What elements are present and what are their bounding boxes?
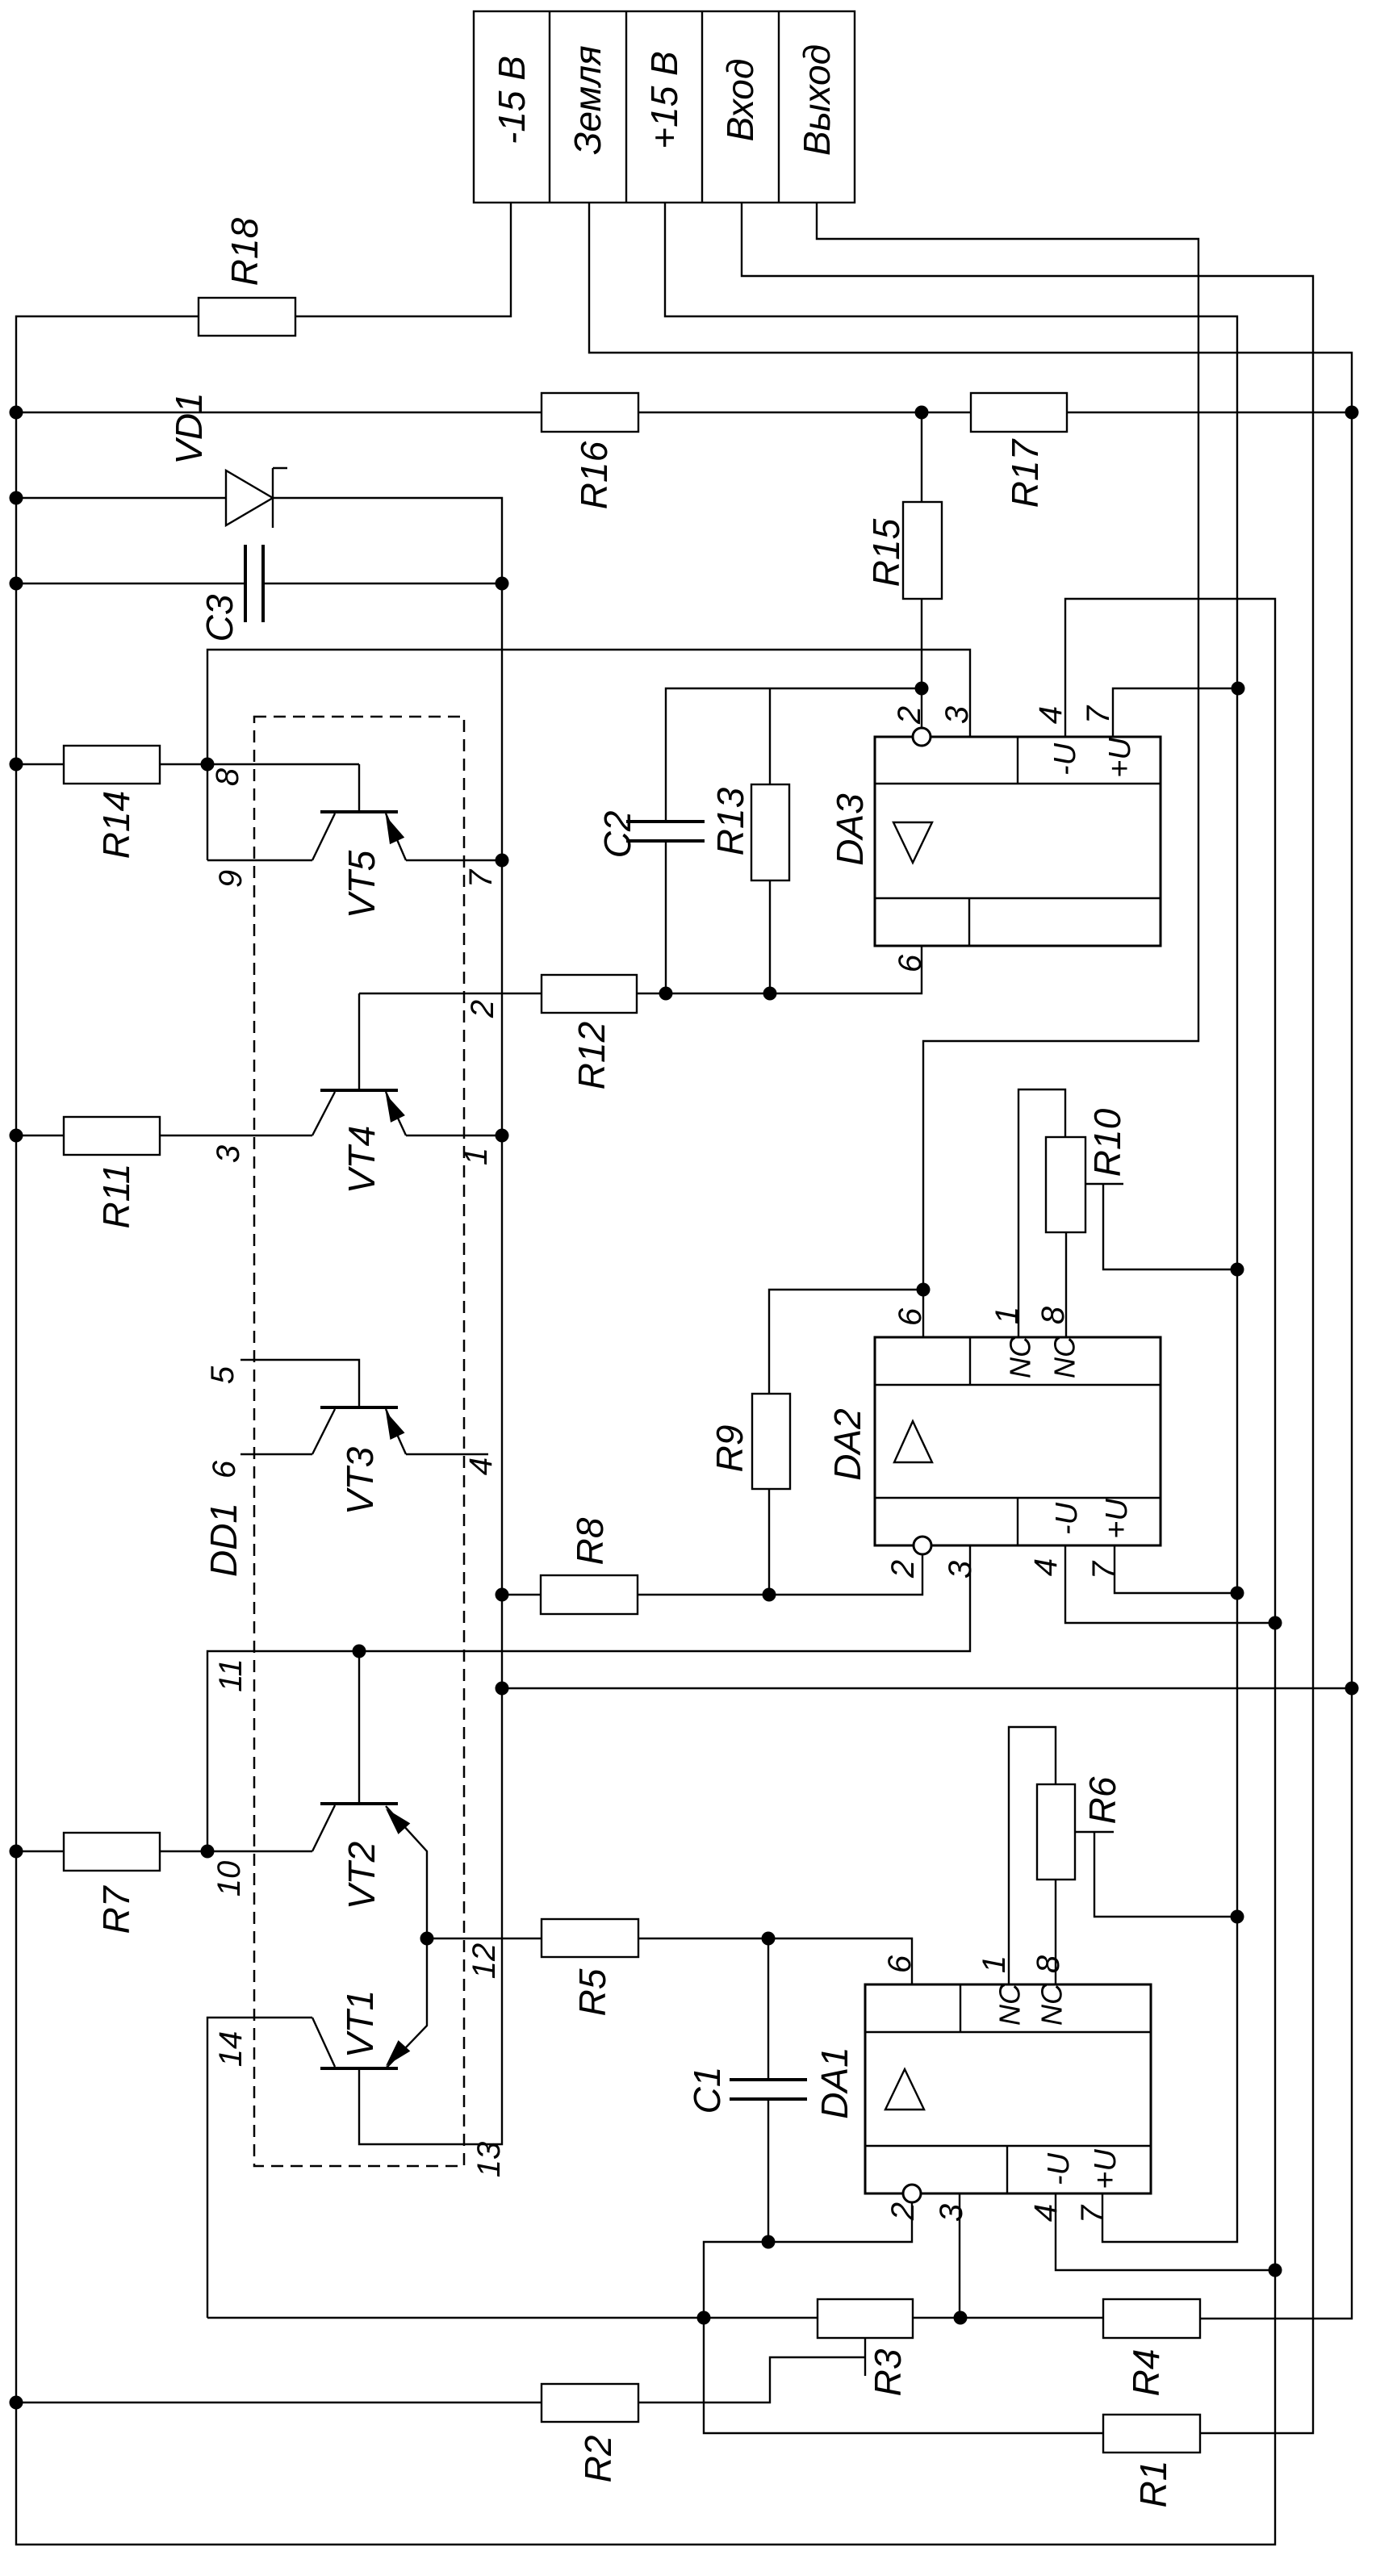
resistor R2 — [542, 2384, 638, 2422]
svg-text:R8: R8 — [569, 1517, 611, 1565]
DA3 top band line — [875, 783, 1161, 784]
capacitor C2 — [626, 820, 705, 823]
resistor R1 — [1103, 2415, 1200, 2453]
junction dot R1 branch/pin14 wire — [697, 2311, 711, 2325]
junction dot pin10/R7 — [201, 1845, 215, 1859]
wire R3 to R4 — [913, 2317, 1103, 2319]
op-amp DA1 box — [865, 1984, 1151, 2193]
svg-text:1: 1 — [458, 1148, 494, 1165]
resistor R12 — [542, 975, 637, 1013]
svg-text:7: 7 — [1086, 1560, 1122, 1579]
connector divider 3-4 — [701, 11, 703, 203]
svg-text:1: 1 — [977, 1955, 1012, 1973]
wire DD1 pin14 net to R3 — [207, 2317, 818, 2319]
svg-text:VD1: VD1 — [168, 392, 210, 464]
wire DA1 pin 2 to C1 bottom and R1 — [704, 2202, 1103, 2433]
svg-text:2: 2 — [885, 1560, 921, 1579]
IC DD1 dashed outline — [254, 717, 464, 2166]
wire R13 bottom — [769, 880, 771, 993]
svg-text:-15 В: -15 В — [491, 56, 533, 144]
wire DD1 pin 4 stub — [406, 1453, 488, 1455]
wire left rail to VD1 anode — [16, 497, 226, 499]
capacitor C1 — [730, 2078, 807, 2081]
junction dot VT2 base / pin 11 wire — [353, 1645, 366, 1658]
svg-text:-U: -U — [1050, 1502, 1084, 1535]
wire R2 to R3 wiper — [638, 2357, 865, 2402]
junction dot ground wire/ground rail — [1345, 1682, 1359, 1696]
svg-text:NC: NC — [993, 1983, 1027, 2026]
DA2 amplifier triangle — [894, 1421, 932, 1462]
svg-text:5: 5 — [205, 1365, 240, 1384]
connector divider 4-5 — [778, 11, 780, 203]
wire left rail to R14 to DD1 pin 8 and VT5 base — [16, 763, 64, 765]
DA1 top band divider — [960, 1984, 961, 2032]
junction dot R17/ground rail — [1345, 406, 1359, 420]
resistor R3 — [818, 2299, 913, 2338]
resistor R18 — [199, 298, 295, 336]
svg-text:+U: +U — [1103, 738, 1137, 778]
wire -15V lead from connector to R18 — [295, 203, 511, 316]
svg-text:10: 10 — [211, 1861, 247, 1897]
DA2 top band line — [875, 1384, 1161, 1386]
junction dot VT1/VT2 emitters — [420, 1932, 434, 1946]
svg-text:9: 9 — [213, 870, 249, 888]
svg-text:6: 6 — [207, 1460, 242, 1478]
wire +15V lead from connector, +15V rail down to DA1 pin 7 — [665, 203, 1237, 2242]
wire input lead from connector, input rail down to R1 — [742, 203, 1313, 2433]
svg-text:12: 12 — [466, 1943, 502, 1980]
svg-text:R11: R11 — [95, 1164, 137, 1229]
svg-text:DA1: DA1 — [813, 2047, 855, 2118]
svg-text:R17: R17 — [1004, 438, 1046, 508]
wire R15 vertical from R16/R17 node down to DA3 pin 2 node — [921, 412, 922, 502]
wire C1 bottom — [767, 2099, 769, 2242]
resistor R16 — [542, 393, 638, 432]
DA3 bottom band divider — [968, 898, 970, 946]
wire DA2 pin 4 to -U rail — [1065, 1545, 1275, 1623]
svg-text:R13: R13 — [709, 787, 751, 855]
svg-text:NC: NC — [1004, 1336, 1037, 1378]
svg-text:2: 2 — [892, 706, 927, 725]
svg-text:13: 13 — [471, 2142, 507, 2178]
wire common rail to R8 — [502, 1594, 541, 1595]
svg-text:4: 4 — [1033, 706, 1069, 724]
svg-text:3: 3 — [934, 2204, 969, 2222]
DA3 top band divider — [1017, 737, 1018, 784]
svg-text:DA3: DA3 — [829, 793, 871, 866]
svg-text:2: 2 — [885, 2202, 921, 2221]
junction dot R6 wiper/+15V rail — [1231, 1910, 1244, 1924]
svg-text:6: 6 — [893, 954, 928, 972]
resistor R11 — [64, 1117, 160, 1155]
svg-text:-U: -U — [1048, 742, 1082, 776]
R3 wiper tap — [864, 2338, 866, 2376]
svg-text:R5: R5 — [571, 1968, 613, 2016]
wire C1 top — [767, 1938, 769, 2080]
junction dot DA2 pin6/output — [917, 1283, 931, 1297]
svg-text:Выход: Выход — [796, 44, 838, 156]
svg-text:7: 7 — [463, 868, 499, 888]
wire DA2 pin 6 node to R9 top — [769, 1290, 923, 1394]
svg-text:R10: R10 — [1086, 1108, 1128, 1177]
DA1 amplifier triangle — [885, 2069, 924, 2110]
svg-text:6: 6 — [882, 1955, 918, 1973]
wire R9 bottom to DA2 pin2 wire — [768, 1489, 770, 1595]
svg-text:C1: C1 — [686, 2067, 728, 2114]
DA1 bottom band line — [865, 2145, 1151, 2147]
resistor R9 — [752, 1394, 790, 1489]
junction dot DA1 pin3/R3/R4 — [954, 2311, 968, 2325]
svg-text:+U: +U — [1089, 2149, 1123, 2189]
wire R10 bottom to DA2 pin 8 — [1065, 1232, 1067, 1337]
svg-text:NC: NC — [1035, 1983, 1069, 2026]
DA2 bottom band line — [875, 1497, 1161, 1499]
resistor R17 — [971, 393, 1067, 432]
op-amp DA2 box — [875, 1337, 1161, 1545]
svg-text:3: 3 — [943, 1561, 978, 1579]
svg-text:8: 8 — [210, 767, 245, 786]
svg-text:VT1: VT1 — [339, 1990, 381, 2058]
wire DA1 pin 4 to -U rail — [1056, 2193, 1275, 2270]
resistor R15 — [903, 502, 942, 599]
junction dot DA3 pin7/+15V rail — [1232, 682, 1245, 696]
svg-text:6: 6 — [893, 1307, 928, 1326]
DA3 pin 2 inverting circle — [913, 728, 931, 746]
junction dot DA2 pin7/+15V rail — [1231, 1587, 1244, 1600]
DA2 top band divider — [969, 1337, 971, 1385]
resistor R6 — [1037, 1784, 1075, 1880]
wire R8 to DA2 pin 2 — [638, 1554, 922, 1595]
svg-text:R2: R2 — [577, 2436, 619, 2483]
wire R12 to C2, R13, DA3 pin 6 — [637, 946, 922, 993]
wire DD1 pin 5 stub and VT3 base — [240, 1360, 359, 1407]
svg-text:4: 4 — [463, 1457, 499, 1475]
wire DD1 pin 9 lead — [207, 859, 312, 861]
DA1 pin 2 inverting circle — [903, 2185, 921, 2202]
svg-text:11: 11 — [213, 1658, 249, 1692]
wire output lead from connector, output rail down to DA2 pin 6 — [817, 203, 1198, 1337]
connector block X1 — [474, 11, 855, 203]
wire DA2 pin 1 up to R10 — [1018, 1089, 1065, 1337]
svg-text:R16: R16 — [573, 441, 615, 509]
svg-text:1: 1 — [989, 1307, 1025, 1324]
resistor R4 — [1103, 2299, 1200, 2338]
svg-text:2: 2 — [465, 1000, 500, 1018]
wire left rail to C3 — [16, 583, 245, 584]
resistor R8 — [541, 1575, 638, 1614]
svg-text:R18: R18 — [224, 217, 266, 286]
junction dots common rail — [496, 577, 509, 591]
junction dot R10 wiper/+15V rail — [1231, 1263, 1244, 1277]
op-amp DA3 box — [875, 737, 1161, 946]
transistor VT2 — [320, 1802, 398, 1805]
junction dot R15/C2/R13/DA3 pin2 — [915, 682, 929, 696]
svg-text:R6: R6 — [1081, 1776, 1123, 1824]
wire DA3 pin 7 to +15V rail — [1113, 688, 1238, 737]
wire R10 wiper to +15V rail — [1103, 1184, 1237, 1269]
svg-text:+15 В: +15 В — [643, 51, 685, 149]
wire DA2 pin 3 to DD1 pins 11/10 and R7 — [207, 1545, 970, 1851]
wire ground lead from connector, right ground rail down to R4 — [589, 203, 1352, 2319]
DA3 bottom band line — [875, 897, 1161, 899]
svg-text:NC: NC — [1048, 1336, 1081, 1378]
wire left rail to R2 — [16, 2402, 542, 2403]
wire R13 top — [769, 688, 771, 784]
svg-text:Земля: Земля — [567, 45, 609, 154]
svg-text:-U: -U — [1042, 2152, 1076, 2185]
DA1 top band line — [865, 2031, 1151, 2033]
svg-text:7: 7 — [1081, 705, 1116, 724]
wire VT5 emitter to common rail pin 7 — [406, 859, 502, 861]
svg-text:R7: R7 — [95, 1885, 137, 1934]
connector divider 2-3 — [625, 11, 627, 203]
wire C2 bottom — [665, 841, 667, 993]
wire DA1 pin 3 down to R3/R4 node — [959, 2193, 960, 2318]
DA3 amplifier triangle — [893, 822, 932, 863]
wire DA3 pin2 node: R15 to C2 top and R13 top — [666, 688, 922, 822]
diode VD1 — [226, 470, 273, 525]
wire VT1/VT2 emitters to R5 — [427, 1938, 542, 1939]
transistor VT1 — [320, 2067, 398, 2070]
junction dot DA2 pin4/-U rail — [1269, 1616, 1282, 1630]
junction dot C2 bottom — [659, 987, 673, 1001]
svg-text:C2: C2 — [596, 811, 638, 859]
wire R5 to DA1 pin 6 — [638, 1938, 912, 1984]
junction dot R16/R17/R15 — [915, 406, 929, 420]
transistor VT3 — [320, 1406, 398, 1409]
svg-text:7: 7 — [1075, 2204, 1110, 2223]
svg-text:+U: +U — [1100, 1499, 1134, 1539]
transistor VT4 — [320, 1089, 398, 1092]
svg-text:VT4: VT4 — [341, 1126, 383, 1194]
svg-text:VT3: VT3 — [339, 1446, 381, 1515]
svg-text:R3: R3 — [867, 2348, 909, 2396]
svg-text:C3: C3 — [199, 594, 240, 642]
capacitor C3 — [244, 545, 247, 622]
wire DD1 pin 2 / VT4 base to R12 — [359, 993, 542, 994]
resistor R10 — [1046, 1137, 1085, 1232]
wire C3 to common rail — [263, 583, 502, 584]
wire DD1 pin 6 stub — [240, 1453, 312, 1455]
svg-text:R4: R4 — [1125, 2349, 1167, 2397]
R6 wiper tap — [1075, 1831, 1114, 1833]
svg-text:DD1: DD1 — [203, 1503, 245, 1577]
wire left rail to R11 to DD1 pin 3 — [16, 1135, 64, 1136]
junction dot R9 bottom — [763, 1588, 776, 1602]
svg-text:R14: R14 — [95, 791, 137, 859]
resistor R7 — [64, 1833, 160, 1871]
svg-text:DA2: DA2 — [826, 1408, 868, 1480]
wire left rail to R7 to DD1 pin 10 — [16, 1850, 64, 1852]
wire DA1 pin 1 up to R6 — [1009, 1727, 1056, 1984]
svg-text:R15: R15 — [865, 518, 907, 587]
resistor R13 — [751, 784, 789, 880]
wire common rail to ground rail — [502, 1687, 1352, 1689]
DA1 bottom band divider — [1006, 2146, 1008, 2193]
svg-text:3: 3 — [939, 706, 975, 724]
wire VD1 cathode to common rail — [273, 498, 502, 2144]
svg-text:R1: R1 — [1132, 2461, 1174, 2508]
svg-text:14: 14 — [213, 2031, 249, 2068]
junction dot C1 top/R5 — [762, 1932, 776, 1946]
junction dot DA1 pin4/-U rail — [1269, 2264, 1282, 2277]
svg-text:8: 8 — [1031, 1955, 1066, 1973]
svg-text:3: 3 — [211, 1145, 246, 1163]
transistor VT5 — [320, 810, 398, 813]
svg-text:4: 4 — [1028, 1558, 1064, 1576]
wire DA2 pin 7 to +15V rail — [1115, 1545, 1237, 1593]
svg-text:4: 4 — [1028, 2204, 1064, 2222]
junction dot C1 bottom — [762, 2235, 776, 2249]
wire DA3 pin3 net: vertical at x257, long wire to DA3 pin 3 — [207, 650, 970, 860]
junction dot R13 bottom — [763, 987, 777, 1001]
svg-text:VT2: VT2 — [341, 1842, 383, 1909]
wire left rail to R16 to R17 to ground rail — [16, 412, 542, 413]
svg-text:VT5: VT5 — [341, 850, 383, 918]
svg-text:R12: R12 — [571, 1022, 613, 1089]
svg-text:Вход: Вход — [719, 59, 761, 142]
resistor R14 — [64, 746, 160, 784]
wire VT4 emitter to common rail pin 1 — [406, 1135, 502, 1136]
DA2 pin 2 inverting circle — [914, 1537, 931, 1554]
junction dots left rail — [10, 406, 23, 420]
svg-text:R9: R9 — [709, 1425, 751, 1473]
wire R6 wiper to +15V rail — [1094, 1832, 1237, 1917]
wire R6 bottom to DA1 pin 8 — [1055, 1880, 1056, 1984]
DA2 bottom band divider — [1017, 1498, 1018, 1545]
connector divider 1-2 — [549, 11, 550, 203]
wire R18 to left rail, left -15V rail, bottom rail, -U rail up to DA3 pin 4 — [16, 316, 1275, 2545]
wire DD1 pin 14 lead down to R3 wire — [207, 2018, 312, 2318]
resistor R5 — [542, 1919, 638, 1957]
R10 wiper tap — [1085, 1183, 1123, 1185]
junction dot pin8/R14 — [201, 758, 215, 772]
